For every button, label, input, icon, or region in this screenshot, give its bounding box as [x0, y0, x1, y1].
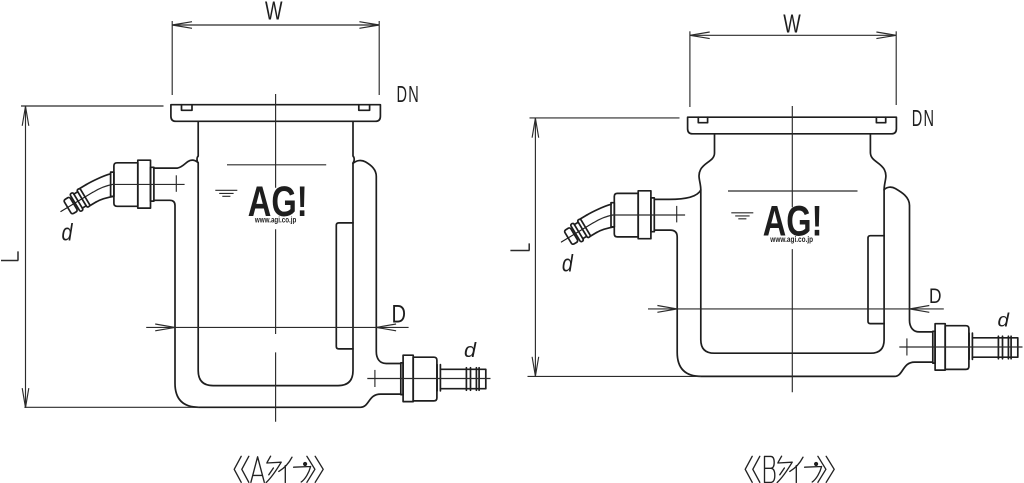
level symbol B	[731, 213, 753, 219]
L label B	[510, 243, 529, 250]
caption bracket left2 B	[753, 456, 760, 482]
W dimension line A	[172, 24, 379, 26]
upper hose bend top line B	[587, 204, 611, 215]
L dimension line A	[25, 106, 27, 408]
caption bracket right2 A	[315, 456, 323, 482]
lower port tick B	[906, 338, 908, 355]
caption katakana pu A	[294, 467, 311, 483]
upper connector cap ring A	[138, 160, 151, 208]
upper connector tube flange B	[651, 198, 654, 232]
flange notch right A	[359, 105, 370, 111]
lower connector cap body A	[413, 357, 437, 401]
svg-text:d: d	[62, 220, 74, 247]
D arrow left A	[155, 324, 175, 331]
upper connector cap body A	[114, 163, 138, 207]
caption letter B	[765, 456, 775, 482]
lower port axis line B	[899, 346, 1022, 348]
L extension top A	[21, 105, 164, 107]
caption bracket right1 B	[818, 456, 826, 482]
inner tube on right cavity wall B	[868, 236, 884, 324]
svg-text:d: d	[562, 250, 574, 277]
upper port axis bend A	[93, 185, 112, 193]
upper port tick B	[676, 206, 678, 223]
upper stub bottom + jacket left wall + jacket bottom + lower stub bottom A	[154, 200, 401, 407]
inner cavity wall A	[197, 121, 354, 385]
caption bracket right2 B	[826, 456, 834, 482]
caption bracket left1 A	[234, 456, 241, 482]
upper connector collar B	[611, 203, 614, 227]
L extension bottom B	[528, 375, 702, 377]
flange B	[688, 117, 897, 134]
caption pu circle B	[814, 462, 818, 466]
W dimension line B	[690, 34, 896, 36]
svg-text:www.agi.co.jp: www.agi.co.jp	[254, 216, 296, 225]
svg-text:W: W	[265, 0, 283, 26]
inner tube on right cavity wall A	[336, 223, 353, 349]
neck + left shoulder + cavity + right shoulder B	[699, 134, 886, 353]
svg-text:DN: DN	[397, 81, 421, 107]
lower connector cap body B	[945, 326, 969, 370]
L label A	[1, 251, 18, 260]
jacket dome + jacket right wall + lower stub top B	[884, 187, 933, 332]
upper connector tube flange A	[151, 167, 154, 201]
svg-text:d: d	[998, 310, 1011, 331]
W arrow left A	[172, 22, 192, 29]
jacket weld arc + upper stub top A	[154, 160, 198, 168]
svg-text:www.agi.co.jp: www.agi.co.jp	[769, 235, 813, 244]
caption bracket left2 A	[242, 456, 249, 482]
flange A	[171, 105, 381, 122]
upper port axis line B	[612, 214, 685, 216]
L extension bottom A	[24, 406, 199, 408]
W extension line left B	[689, 31, 691, 107]
upper port axis bend B	[594, 215, 613, 223]
caption katakana i A	[279, 457, 292, 482]
W arrow right A	[359, 22, 379, 29]
lower connector collar A	[437, 365, 440, 391]
L arrow down A	[22, 388, 29, 408]
caption katakana i B	[790, 457, 803, 482]
level symbol A	[215, 190, 237, 196]
caption bracket right1 A	[307, 456, 315, 482]
lower connector tube flange B	[933, 331, 935, 363]
upper port tick A	[175, 175, 177, 192]
lower connector cap ring A	[403, 355, 413, 401]
upper connector cap ring B	[638, 191, 651, 239]
caption letter A	[251, 457, 264, 483]
upper connector cap body B	[614, 193, 638, 237]
caption katakana ta A	[266, 456, 281, 482]
lower port tick A	[374, 370, 376, 387]
upper stub bottom + jacket left wall + jacket bottom + lower stub bottom B	[654, 230, 933, 376]
fill level line A	[227, 164, 326, 166]
svg-text:DN: DN	[912, 105, 936, 131]
upper hose bend bottom line B	[597, 227, 614, 233]
D arrow right A	[376, 324, 396, 331]
lower hose barb B	[972, 336, 1017, 359]
D arrow right B	[910, 306, 930, 313]
lower connector cap ring B	[935, 324, 945, 370]
upper hose barb B	[556, 214, 599, 251]
upper stub top arc B	[654, 190, 701, 199]
W extension line left A	[171, 21, 173, 95]
fill level line B	[728, 190, 858, 192]
upper hose bend top line A	[86, 174, 110, 185]
lower port axis line A	[367, 378, 490, 380]
flange notch left A	[182, 105, 193, 111]
W arrow right B	[876, 32, 896, 39]
caption katakana pu B	[805, 467, 822, 483]
L dimension line B	[534, 118, 536, 377]
W arrow left B	[690, 32, 710, 39]
D dimension line A	[146, 326, 408, 328]
center line B	[791, 106, 793, 392]
lower connector collar B	[969, 333, 972, 359]
upper hose barb A	[56, 183, 99, 220]
jacket dome + jacket right wall + lower stub top A	[353, 161, 401, 364]
L arrow up A	[22, 106, 29, 126]
lower connector tube flange A	[401, 363, 403, 395]
lower hose barb A	[440, 368, 485, 391]
flange notch left B	[698, 117, 707, 123]
D dimension line B	[648, 308, 944, 310]
flange notch right B	[876, 117, 885, 123]
caption pu circle A	[303, 462, 307, 466]
upper connector collar A	[111, 172, 114, 196]
D arrow left B	[657, 306, 677, 313]
svg-text:d: d	[464, 340, 477, 362]
center line A	[275, 94, 277, 422]
W extension line right A	[378, 21, 380, 95]
svg-text:D: D	[392, 301, 407, 329]
svg-text:D: D	[929, 285, 942, 308]
caption katakana ta B	[777, 456, 792, 482]
L extension top B	[530, 117, 680, 119]
svg-text:W: W	[783, 9, 801, 39]
upper hose bend bottom line A	[97, 196, 114, 202]
caption bracket left1 B	[745, 456, 752, 482]
W extension line right B	[895, 31, 897, 105]
caption A type	[234, 456, 323, 482]
L arrow up B	[532, 118, 539, 138]
caption B type	[745, 456, 834, 482]
L arrow down B	[532, 357, 539, 376]
upper port axis line A	[112, 183, 185, 185]
